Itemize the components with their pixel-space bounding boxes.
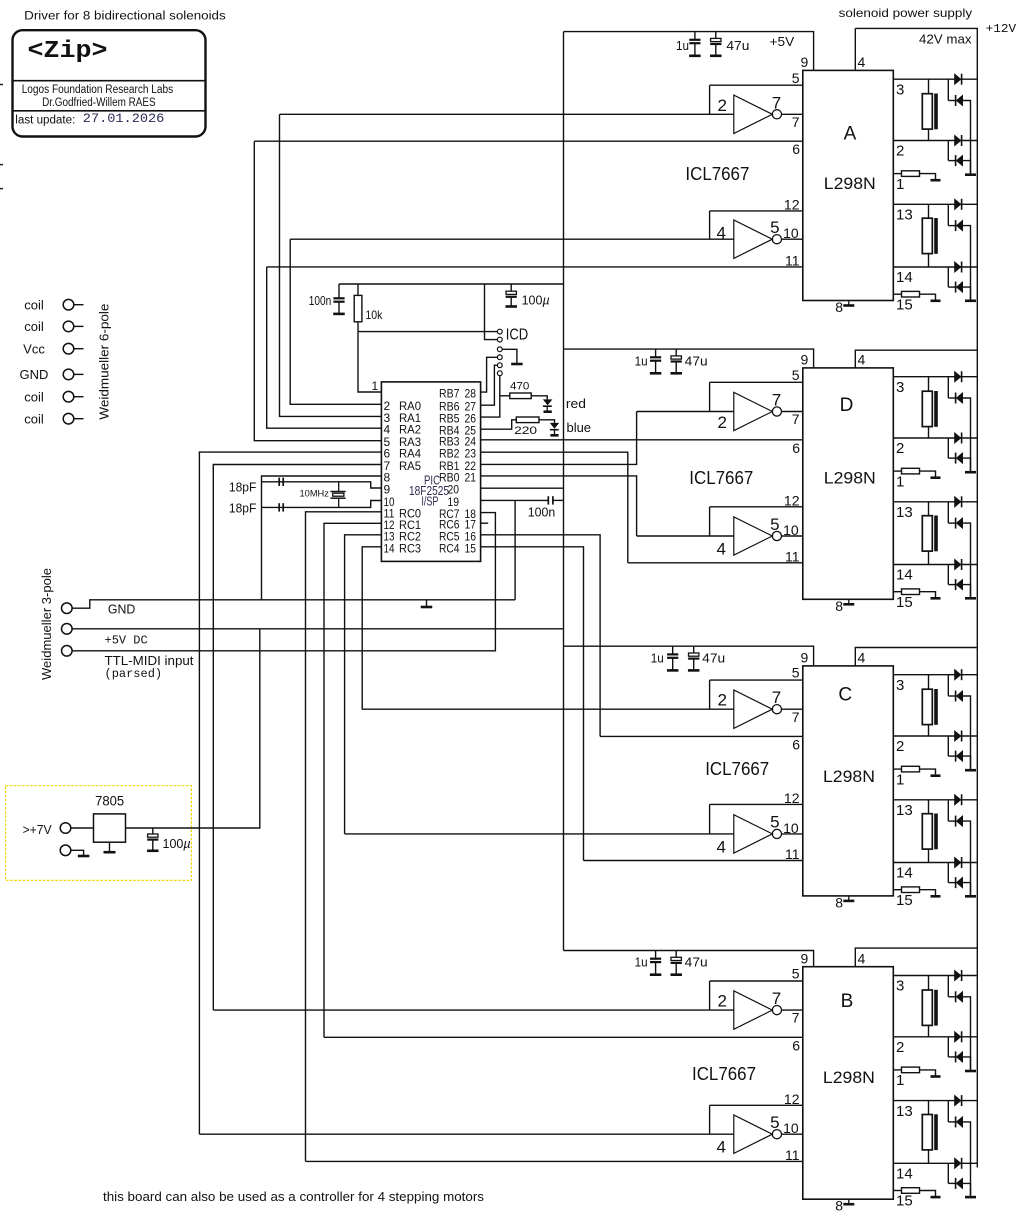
node pin6 label block D: [792, 440, 800, 456]
svg-text:10: 10: [783, 820, 799, 836]
svg-text:coil: coil: [24, 297, 44, 312]
svg-text:GND: GND: [108, 602, 135, 617]
svg-text:Dr.Godfried-Willem RAES: Dr.Godfried-Willem RAES: [42, 97, 156, 109]
svg-text:9: 9: [801, 951, 809, 967]
svg-text:1u: 1u: [651, 650, 664, 665]
wire enable pin11 block A: [267, 266, 803, 268]
connector ICD pin2: [497, 337, 502, 342]
svg-text:47u: 47u: [702, 650, 725, 665]
wire enable pin6 block A: [254, 140, 803, 142]
node output pin7 label block C: [772, 688, 781, 707]
node Zip logo: [28, 38, 108, 65]
ground flyback block D: [965, 597, 976, 600]
wire edge tick: [0, 188, 3, 190]
diode flyback-up 13 block B: [955, 1095, 962, 1106]
svg-text:>+7V: >+7V: [23, 822, 52, 837]
diode flyback-up 2 block B: [955, 1031, 962, 1042]
node PIC right pin labels: [439, 387, 476, 556]
svg-text:42V max: 42V max: [919, 32, 972, 47]
node 1u label: [635, 353, 648, 368]
connector 3-pole pin +5V: [62, 624, 73, 635]
wire +7V to 7805: [71, 827, 94, 829]
wire inverter out to pin10 block B: [781, 1133, 803, 1135]
svg-text:+5V: +5V: [770, 34, 795, 49]
node 1u label: [676, 38, 689, 53]
node output pin7 label block D: [772, 391, 781, 410]
inverter 2-7 block B: [734, 991, 782, 1029]
node org line: [22, 84, 174, 96]
wire output 14 block A: [893, 266, 977, 268]
wire inverter out to pin7 block D: [781, 411, 803, 413]
svg-text:ICL7667: ICL7667: [692, 1064, 756, 1084]
connector ICD pin6: [497, 371, 502, 376]
solenoid winding block B: [922, 976, 938, 1037]
node +12V label: [986, 22, 1017, 36]
wire output 13 block B: [893, 1100, 977, 1102]
wire RC2 to C-in2: [345, 535, 382, 834]
driver U-B L298N body: [803, 967, 894, 1199]
wire +5V rail block C: [564, 646, 814, 666]
node 42V max label: [919, 32, 972, 47]
svg-text:14: 14: [896, 865, 913, 882]
svg-text:4: 4: [858, 352, 866, 368]
node pin12 label block D: [784, 492, 800, 508]
wire diode link block A: [948, 141, 955, 161]
node pin9 label block D: [801, 352, 809, 368]
diode flyback-down 13 block D: [956, 518, 963, 529]
svg-text:10: 10: [783, 1120, 799, 1136]
node title block divider: [13, 80, 206, 82]
wire inverter input block A: [290, 238, 734, 240]
ground pin8 block B: [835, 1198, 854, 1214]
ground flyback block B: [965, 1070, 976, 1073]
diode flyback-up 3 block D: [955, 371, 962, 382]
svg-text:this board can also be used as: this board can also be used as a control…: [103, 1189, 485, 1204]
wire ICD gnd: [502, 349, 517, 363]
node 47u label: [685, 955, 708, 970]
connector 3-pole pin TTL-MIDI: [62, 646, 73, 657]
wire inverter out to pin7 block A: [781, 113, 803, 115]
wire in-phase to pin5 block B: [710, 981, 803, 1010]
wire diode to ground block A: [963, 226, 971, 300]
svg-text:18pF: 18pF: [229, 501, 257, 515]
node pin14 label block B: [896, 1166, 913, 1183]
svg-text:solenoid power supply: solenoid power supply: [839, 6, 973, 20]
node 100u label: [163, 837, 191, 851]
node pin10 label block C: [783, 820, 799, 836]
node pin7 label block D: [792, 411, 800, 427]
svg-text:red: red: [566, 396, 586, 411]
wire inverter input block D: [637, 411, 734, 413]
node pin6 label block C: [792, 736, 800, 752]
node pin10 label block B: [783, 1120, 799, 1136]
svg-text:6: 6: [792, 736, 800, 752]
svg-text:blue: blue: [567, 420, 592, 435]
wire enable pin11 block D: [628, 562, 803, 564]
svg-text:12: 12: [784, 492, 800, 508]
node pin5 label block C: [792, 665, 800, 681]
wire output 2 block C: [893, 735, 977, 737]
node pin4 label block C: [858, 650, 866, 666]
wire +5V rail block A: [564, 32, 814, 71]
svg-text:3: 3: [896, 81, 904, 98]
node pin11 label block B: [785, 1147, 800, 1163]
svg-text:Weidmueller 3-pole: Weidmueller 3-pole: [39, 568, 54, 680]
svg-text:+12V: +12V: [986, 22, 1017, 36]
node output pin5 label block D: [770, 515, 779, 534]
svg-text:7: 7: [772, 391, 781, 410]
resistor sense 1 block A: [893, 171, 940, 180]
svg-text:4: 4: [858, 650, 866, 666]
wire in-phase to pin12 block D: [710, 507, 803, 536]
wire +42V main rail: [976, 28, 978, 1167]
wire output 14 block B: [893, 1162, 977, 1164]
svg-text:14: 14: [896, 567, 913, 584]
diode flyback-down 14 block C: [956, 877, 963, 888]
node pin10 label block A: [783, 225, 799, 241]
svg-text:1u: 1u: [676, 38, 689, 53]
svg-text:4: 4: [717, 1138, 726, 1157]
svg-text:6: 6: [792, 1037, 800, 1053]
svg-text:100µ: 100µ: [163, 837, 191, 851]
connector 6-pole pin coil: [24, 411, 83, 426]
node pin15 label block A: [896, 296, 913, 313]
wire diode link block A: [948, 79, 955, 100]
wire in-phase to pin5 block D: [710, 382, 803, 411]
svg-text:RC3: RC3: [399, 541, 421, 555]
wire TTL-MIDI input: [72, 513, 495, 651]
svg-text:13: 13: [896, 802, 913, 819]
node solenoid power supply label: [839, 6, 973, 20]
svg-text:1: 1: [372, 379, 379, 393]
wire RC3 to C-in1: [362, 547, 381, 710]
node input pin4 label block D: [717, 540, 726, 559]
diode flyback-up 2 block A: [955, 135, 962, 146]
node input pin2 label block A: [718, 96, 727, 115]
node pin3 label block D: [896, 379, 904, 396]
svg-text:ICL7667: ICL7667: [685, 164, 749, 184]
node input pin4 label block C: [717, 837, 726, 856]
wire MCLR net: [358, 332, 498, 392]
connector 6-pole pin Vcc: [23, 341, 83, 356]
node red label: [566, 396, 586, 411]
inverter 4-5 block A: [734, 220, 782, 258]
diode flyback-down 13 block A: [956, 220, 963, 231]
node pin2 label block B: [896, 1039, 904, 1056]
node date: [83, 111, 164, 126]
svg-text:D: D: [840, 395, 854, 416]
ground flyback block C: [965, 769, 976, 772]
svg-text:11: 11: [785, 548, 800, 564]
svg-text:3: 3: [896, 978, 904, 995]
wire diode link block C: [948, 863, 955, 883]
svg-text:ICL7667: ICL7667: [705, 759, 769, 779]
node pin15 label block D: [896, 594, 913, 611]
diode flyback-down 14 block A: [956, 282, 963, 293]
node GND label: [108, 602, 135, 617]
node L298N label block D: [824, 469, 876, 488]
svg-text:1u: 1u: [635, 353, 648, 368]
node output pin7 label block A: [772, 93, 781, 112]
node block letter B: [841, 991, 854, 1012]
svg-text:12: 12: [784, 790, 800, 806]
capacitor 1u block A: [689, 32, 701, 56]
node pin9 label block A: [801, 54, 809, 70]
diode flyback-down 13 block C: [956, 816, 963, 827]
wire output 3 block D: [893, 376, 977, 378]
svg-text:coil: coil: [24, 319, 44, 334]
wire diode to ground block C: [963, 756, 971, 769]
node pin4 label block D: [858, 352, 866, 368]
svg-text:5: 5: [770, 218, 779, 237]
svg-text:5: 5: [792, 367, 800, 383]
svg-text:2: 2: [718, 413, 727, 432]
svg-text:RB7: RB7: [439, 387, 460, 401]
wire diode to ground block C: [963, 821, 971, 895]
svg-text:last update:: last update:: [15, 114, 75, 126]
svg-text:1: 1: [896, 771, 904, 788]
wire inverter input block A: [280, 113, 734, 115]
svg-text:RA5: RA5: [399, 459, 421, 473]
svg-text:3: 3: [896, 677, 904, 694]
diode flyback-up 3 block B: [955, 970, 962, 981]
diode flyback-up 14 block B: [955, 1158, 962, 1169]
ground pin8 block D: [835, 598, 854, 614]
wire inverter input block D: [637, 535, 734, 537]
ground flyback block A: [965, 173, 976, 176]
microcontroller U1 PIC18F2525 body: [381, 382, 480, 562]
node pin11 label block D: [785, 548, 800, 564]
wire RA3 to A-en6: [254, 141, 381, 441]
wire diode link block A: [948, 267, 955, 287]
capacitor 100u at 7805: [147, 828, 159, 851]
wire output 13 block C: [893, 799, 977, 801]
ground flyback block B: [965, 1196, 976, 1199]
node pin2 label block A: [896, 143, 904, 160]
svg-text:coil: coil: [24, 411, 44, 426]
solenoid winding block C: [922, 800, 938, 863]
svg-text:<Zip>: <Zip>: [28, 38, 108, 65]
wire inverter input block C: [362, 708, 734, 710]
svg-text:14: 14: [896, 269, 913, 286]
svg-text:I/SP: I/SP: [421, 495, 438, 509]
svg-text:L298N: L298N: [824, 174, 876, 193]
wire in-phase to pin12 block A: [710, 211, 803, 239]
capacitor 100u at ICD rail: [505, 284, 517, 307]
wire diode link block D: [948, 502, 955, 523]
solenoid winding block D: [922, 377, 938, 438]
wire diode to ground block D: [963, 398, 971, 471]
wire diode to ground block D: [963, 523, 971, 597]
svg-text:7: 7: [792, 1010, 800, 1026]
wire diode to ground block C: [963, 883, 971, 895]
solenoid winding block C: [922, 675, 938, 736]
regulator U5 7805: [94, 814, 126, 842]
svg-text:7: 7: [792, 411, 800, 427]
node pin7 label block A: [792, 114, 800, 130]
node pin9 label block C: [801, 650, 809, 666]
svg-text:7: 7: [772, 688, 781, 707]
wire GND riser to PIC pin19: [514, 500, 516, 599]
node pin11 label block A: [785, 252, 800, 268]
svg-text:15: 15: [465, 541, 477, 555]
diode flyback-down 13 block B: [956, 1116, 963, 1127]
connector 3-pole pin GND: [62, 603, 73, 614]
node output pin5 label block A: [770, 218, 779, 237]
wire VSS pin8: [262, 476, 382, 600]
wire edge tick: [0, 164, 3, 166]
ground flyback block D: [965, 471, 976, 474]
node pin3 label block B: [896, 978, 904, 995]
node bottom note: [103, 1189, 485, 1204]
connector 6-pole pin coil: [24, 319, 83, 334]
svg-text:11: 11: [785, 252, 800, 268]
node pin15 label block C: [896, 892, 913, 909]
node pin14 label block C: [896, 865, 913, 882]
wire OSC1 pin9 net: [262, 482, 382, 488]
resistor sense 15 block B: [893, 1188, 940, 1197]
node pin1 label block D: [896, 473, 904, 490]
svg-text:11: 11: [785, 1147, 800, 1163]
wire enable pin6 block C: [600, 735, 803, 737]
wire inverter out to pin7 block C: [781, 708, 803, 710]
node L298N label block C: [823, 767, 875, 786]
node input pin4 label block B: [717, 1138, 726, 1157]
node PIC left pin labels: [384, 399, 422, 556]
node 7805 label: [95, 794, 124, 809]
svg-text:47u: 47u: [685, 955, 708, 970]
wire +5V spine: [563, 32, 565, 951]
svg-text:Weidmueller 6-pole: Weidmueller 6-pole: [97, 304, 112, 420]
diode flyback-down 3 block D: [956, 393, 963, 404]
capacitor 47u block A: [710, 32, 722, 56]
wire ICD PGC to RB6: [481, 365, 498, 405]
svg-text:10k: 10k: [365, 308, 383, 322]
svg-text:coil: coil: [24, 389, 44, 404]
node pin7 label block C: [792, 709, 800, 725]
ground flyback block C: [965, 895, 976, 898]
node pin13 label block D: [896, 504, 913, 521]
svg-text:21: 21: [465, 470, 477, 484]
wire RC6 stub: [481, 522, 489, 524]
node pin15 label block B: [896, 1193, 913, 1210]
svg-text:RC4: RC4: [439, 541, 460, 555]
node input pin4 label block A: [717, 224, 726, 243]
node pin14 label block A: [896, 269, 913, 286]
svg-text:47u: 47u: [685, 353, 708, 368]
wire diode to ground block A: [963, 287, 971, 299]
svg-text:11: 11: [785, 846, 800, 862]
svg-text:8: 8: [835, 1198, 843, 1214]
node pin3 label block A: [896, 81, 904, 98]
svg-text:27.01.2026: 27.01.2026: [83, 111, 164, 126]
wire output 2 block B: [893, 1036, 977, 1038]
wire output 13 block A: [893, 203, 977, 205]
svg-text:9: 9: [801, 54, 809, 70]
wire edge tick: [0, 84, 3, 86]
svg-text:5: 5: [770, 1113, 779, 1132]
capacitor 1u block B: [650, 951, 662, 975]
wire ICD PGD to RB7: [481, 357, 498, 392]
svg-text:15: 15: [896, 296, 913, 313]
node pin13 label block A: [896, 207, 913, 224]
svg-text:4: 4: [717, 837, 726, 856]
node pin10 label block D: [783, 522, 799, 538]
svg-text:18pF: 18pF: [229, 480, 257, 494]
led blue D-blue: [539, 420, 559, 436]
svg-text:10MHz: 10MHz: [300, 489, 330, 499]
wire RA1 to A-in1: [280, 114, 382, 416]
node author line: [42, 97, 156, 109]
svg-text:5: 5: [770, 515, 779, 534]
svg-text:ICL7667: ICL7667: [689, 468, 753, 488]
svg-text:(parsed): (parsed): [105, 667, 163, 681]
svg-text:15: 15: [896, 594, 913, 611]
wire RC4 to C-en11: [481, 547, 584, 861]
connector input ground pin: [60, 845, 89, 856]
svg-text:B: B: [841, 991, 854, 1012]
node pin12 label block B: [784, 1091, 800, 1107]
svg-text:GND: GND: [20, 367, 49, 382]
node 100n label: [528, 504, 556, 519]
node pin1 label block A: [896, 176, 904, 193]
svg-text:7: 7: [792, 709, 800, 725]
inverter 2-7 block D: [734, 392, 782, 430]
diode flyback-up 13 block A: [955, 199, 962, 210]
wire diode to ground block B: [963, 1183, 971, 1195]
wire RC5 to C-en6: [481, 535, 600, 737]
wire RB0 to D-in2: [481, 476, 637, 536]
wire enable pin11 block B: [306, 1160, 803, 1162]
node title block divider: [13, 110, 206, 112]
inverter 2-7 block C: [734, 690, 782, 728]
svg-text:L298N: L298N: [823, 767, 875, 786]
node pin1 label block C: [896, 771, 904, 788]
wire output 3 block B: [893, 975, 977, 977]
connector 6-pole pin coil: [24, 389, 83, 404]
node pin14 label block D: [896, 567, 913, 584]
ground 7805 tab: [104, 842, 116, 852]
node output pin5 label block C: [770, 813, 779, 832]
capacitor 47u block D: [670, 349, 682, 373]
wire diode to ground block A: [963, 161, 971, 174]
svg-text:2: 2: [896, 440, 904, 457]
svg-text:100n: 100n: [528, 504, 556, 519]
led red D-red: [531, 396, 552, 412]
node 10MHz label: [300, 489, 330, 499]
svg-text:2: 2: [718, 691, 727, 710]
connector 6-pole pin GND: [20, 367, 84, 382]
node pin5 label block A: [792, 70, 800, 86]
solenoid winding block B: [922, 1101, 938, 1164]
svg-text:14: 14: [896, 1166, 913, 1183]
svg-text:3: 3: [896, 379, 904, 396]
wire diode link block D: [948, 438, 955, 458]
svg-text:4: 4: [858, 54, 866, 70]
node input pin2 label block D: [718, 413, 727, 432]
connector +7V input: [23, 822, 71, 837]
wire VSS pin19: [481, 499, 564, 501]
capacitor 18pF C-osc1: [279, 478, 283, 486]
resistor 220: [514, 417, 539, 437]
wire +5V rail block D: [564, 349, 814, 368]
wire RB4 to 220: [481, 420, 517, 429]
diode flyback-up 13 block C: [955, 794, 962, 805]
wire 42V feed block C: [855, 648, 977, 666]
wire diode to ground block D: [963, 585, 971, 597]
wire 42V feed block A: [854, 28, 856, 70]
wire diode link block B: [948, 976, 955, 997]
